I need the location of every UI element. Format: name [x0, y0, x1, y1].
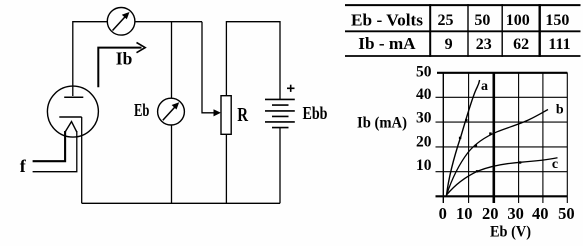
svg-text:Ib: Ib	[116, 49, 133, 69]
svg-text:Eb (V): Eb (V)	[490, 224, 531, 241]
svg-text:Ebb: Ebb	[303, 103, 328, 123]
svg-text:f: f	[20, 156, 27, 176]
marker dot a2	[465, 119, 467, 121]
marker dot b2	[489, 132, 491, 134]
svg-text:Eb: Eb	[134, 100, 149, 120]
wire grid lead down	[81, 117, 83, 203]
triode V1	[47, 86, 98, 137]
svg-text:40: 40	[532, 204, 549, 223]
wire resistor top lead and bridge to battery	[226, 22, 280, 100]
svg-text:50: 50	[558, 204, 575, 223]
marker dot b1	[475, 144, 477, 146]
voltmeter Eb	[158, 98, 185, 125]
wire voltmeter bottom lead	[171, 125, 173, 203]
svg-text:50: 50	[474, 12, 490, 29]
graph grid	[436, 73, 568, 204]
wire battery bottom lead	[279, 128, 281, 204]
svg-text:25: 25	[438, 12, 454, 29]
wire bottom return	[82, 202, 280, 204]
marker dot c2	[519, 161, 521, 163]
svg-text:100: 100	[506, 12, 530, 29]
svg-text:111: 111	[548, 36, 570, 53]
marker dot c1	[476, 170, 478, 172]
svg-text:b: b	[556, 102, 564, 117]
table row 2	[358, 34, 570, 53]
svg-text:Eb - Volts: Eb - Volts	[351, 10, 423, 29]
svg-text:10: 10	[416, 157, 432, 174]
svg-text:50: 50	[416, 64, 432, 81]
wire plate lead and top wire left segment	[73, 22, 108, 96]
ammeter M1	[107, 7, 135, 35]
svg-text:20: 20	[482, 204, 499, 223]
table row 1	[351, 10, 569, 29]
svg-text:40: 40	[416, 86, 432, 103]
x axis tick labels	[439, 204, 575, 223]
svg-text:10: 10	[456, 204, 473, 223]
svg-text:Ib (mA): Ib (mA)	[357, 114, 407, 131]
wire top segment meter to wiper corner	[135, 21, 202, 23]
table grid	[345, 4, 581, 57]
svg-text:Ib - mA: Ib - mA	[358, 34, 416, 53]
curve a	[447, 80, 480, 196]
svg-text:30: 30	[507, 204, 524, 223]
svg-text:62: 62	[513, 36, 529, 53]
wire resistor bottom lead	[225, 134, 227, 203]
svg-text:20: 20	[416, 134, 432, 151]
battery Ebb	[265, 99, 295, 127]
svg-text:R: R	[237, 104, 248, 126]
wire wiper feed with arrow	[202, 22, 217, 113]
svg-text:23: 23	[476, 36, 492, 53]
Ib arrow	[98, 43, 145, 88]
arrowhead wiper	[214, 109, 221, 116]
y axis tick labels	[416, 64, 432, 174]
curve c	[447, 158, 558, 195]
wire Eb branch top	[171, 22, 173, 99]
curve b	[447, 110, 549, 196]
resistor R	[221, 96, 231, 135]
svg-text:0: 0	[439, 204, 447, 223]
plus sign	[287, 85, 295, 92]
svg-text:30: 30	[416, 110, 432, 127]
svg-text:a: a	[481, 79, 488, 94]
svg-text:c: c	[552, 157, 558, 172]
wire filament left leg and upper f line	[33, 131, 66, 161]
svg-text:150: 150	[545, 12, 569, 29]
svg-text:9: 9	[445, 36, 453, 53]
wire filament right leg and lower f line	[33, 131, 77, 172]
marker dot a1	[459, 137, 461, 139]
